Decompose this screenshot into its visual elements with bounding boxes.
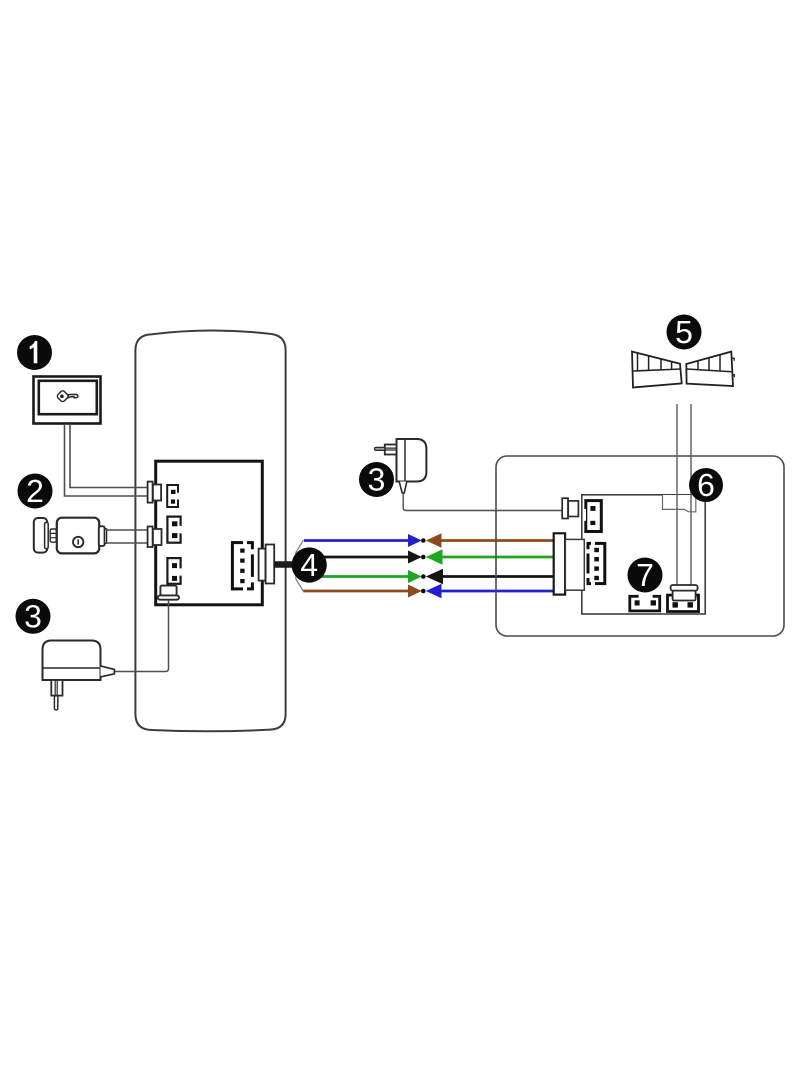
wire blue right row4 [440, 590, 555, 593]
plug on K2 [671, 585, 698, 601]
electric lock [34, 518, 107, 554]
arrow brown row4 [408, 585, 422, 598]
label 4 [292, 547, 327, 582]
wire brown left row4 [303, 590, 408, 593]
label 1 [17, 335, 52, 370]
label 6 [689, 468, 723, 502]
label 5 [667, 315, 702, 350]
arrow green row3 [408, 570, 422, 583]
junction dot row4 [421, 589, 426, 594]
cable sheath funnel [296, 540, 304, 592]
cable entry tab [663, 495, 696, 512]
wing right [686, 352, 734, 386]
feed-through connector outdoor main [554, 533, 585, 594]
wing left [632, 352, 682, 388]
label 7 [628, 558, 663, 593]
outdoor panel outline [496, 456, 784, 636]
4-pin socket outdoor [588, 542, 606, 585]
wing wire left [676, 404, 678, 586]
arrow blue row1 [408, 534, 422, 547]
wire green right row2 [442, 556, 555, 559]
PCB connector P1 [167, 485, 179, 507]
outdoor PCB [582, 495, 705, 614]
wire [106, 542, 148, 544]
feed-through connector J1 [148, 482, 161, 503]
cable plug monitor right [259, 545, 275, 584]
arrow black row3 [426, 569, 443, 584]
label 3 outdoor side [359, 462, 394, 497]
junction dot row3 [421, 574, 426, 579]
outdoor connector P4 [583, 501, 602, 532]
wire green left row3 [310, 575, 409, 578]
junction dot row1 [421, 538, 426, 543]
arrow black row2 [408, 551, 422, 564]
feed-through connector outdoor top [562, 498, 578, 518]
wire adapter to outdoor [403, 493, 562, 511]
wing wire right [690, 404, 692, 586]
arrow blue row4 [426, 584, 442, 598]
arrow green row2 [426, 549, 443, 564]
feed-through connector J2 [148, 527, 162, 548]
wire black right row3 [443, 575, 555, 578]
power adapter A2 [375, 439, 427, 493]
PCB connector P3 [167, 558, 182, 584]
monitor PCB [156, 461, 263, 605]
power adapter A1 [43, 641, 115, 711]
wire [70, 424, 148, 488]
4-pin socket monitor [231, 541, 252, 590]
wire blue left row1 [304, 539, 409, 542]
cable [274, 561, 309, 568]
connector K2 outdoor bottom right [668, 595, 699, 611]
plug bottom monitor [158, 586, 179, 600]
wire button to monitor [65, 424, 149, 496]
label 3 monitor side [16, 599, 51, 634]
key icon [56, 390, 78, 403]
PCB connector P2 [167, 517, 182, 543]
label 2 [18, 474, 53, 509]
junction dot row2 [421, 555, 426, 560]
wire black left row2 [310, 556, 409, 559]
wire lock to monitor [106, 529, 148, 531]
monitor outline [135, 330, 285, 731]
wire brown right row1 [440, 539, 555, 542]
wire monitor to adapter [115, 600, 169, 672]
connector K1 outdoor bottom left [630, 594, 660, 611]
door release button B1 [34, 377, 101, 424]
arrow brown row1 [426, 533, 442, 547]
